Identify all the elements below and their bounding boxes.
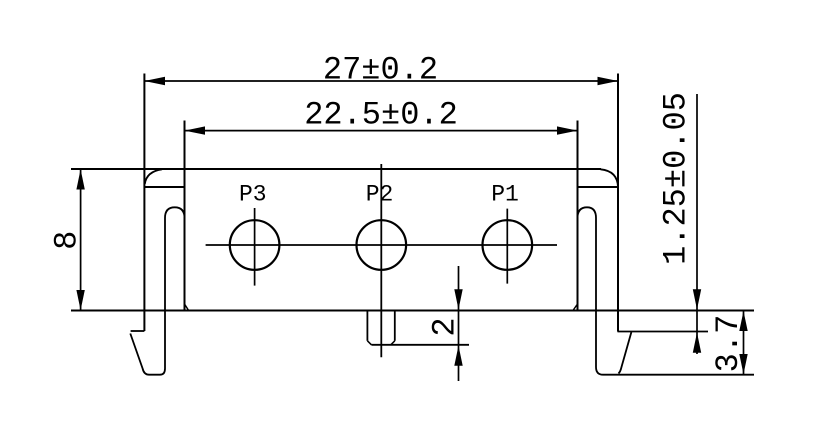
- wire center tab right side (x=394.8): [394, 311, 396, 341]
- arrow 27 dim right: [598, 77, 619, 85]
- arrow 8 dim top: [76, 169, 84, 189]
- wire right foot top line + extension line for 1.25 dim (y=331.5): [618, 331, 709, 333]
- wire right foot bent-tip diagonal: [619, 332, 632, 374]
- wire right slot bottom chamfer tick: [573, 304, 577, 310]
- wire right leg bottom edge + extension line for 3.7 dim (y=374.7): [603, 374, 754, 376]
- wire top edge of shell body (y=169): [71, 168, 601, 170]
- wire center tab left side (x=367.4): [366, 311, 368, 341]
- wire top-right corner fillet: [601, 169, 619, 187]
- wire body left edge + extension line for 22.5 dim (x=184.5): [184, 121, 186, 311]
- hole P1 circle: [483, 220, 533, 270]
- svg-text:P2: P2: [366, 182, 394, 208]
- wire center tab bottom left chamfer: [367, 341, 371, 345]
- svg-text:22.5±0.2: 22.5±0.2: [304, 97, 458, 134]
- wire right flange step line (y=187): [578, 186, 619, 188]
- arrow 27 dim left: [144, 77, 165, 85]
- svg-text:8: 8: [49, 231, 86, 250]
- wire dimension line 2 (x=458.5): [458, 266, 460, 381]
- wire dimension line 22.5±0.2 (y=130.6): [185, 130, 578, 132]
- arrow 22.5 dim left: [185, 126, 206, 134]
- arrow 2 dim upper (points down to y=310.5): [454, 289, 462, 309]
- arrow 1.25 dim upper (points down to y=310.5): [693, 289, 701, 309]
- svg-text:P1: P1: [491, 182, 519, 208]
- wire outer right edge + extension line for 27 dim (x=618): [617, 74, 619, 332]
- hole P2 circle: [357, 220, 407, 270]
- svg-text:27±0.2: 27±0.2: [323, 52, 438, 89]
- arrow 3.7 dim top (points up to y=310.5): [739, 311, 747, 331]
- wire dimension line 3.7 (x=743.5): [743, 311, 745, 375]
- wire left slot bottom chamfer tick: [185, 304, 189, 310]
- wire outer left edge + extension line for 27 dim (x=144.4): [143, 74, 145, 332]
- wire left slot left side continuing as left leg inner edge (x=165): [130, 218, 165, 375]
- svg-text:1.25±0.05: 1.25±0.05: [658, 92, 695, 265]
- svg-text:P3: P3: [239, 182, 267, 208]
- wire right slot right side continuing as right leg inner edge (x=596): [596, 218, 603, 375]
- svg-text:3.7: 3.7: [710, 315, 747, 373]
- wire dimension line 8 (x=80.6): [80, 169, 82, 311]
- arrow 22.5 dim right: [557, 126, 578, 134]
- wire center tab bottom right chamfer: [391, 341, 395, 345]
- wire left flange step line (y=187): [144, 186, 184, 188]
- wire left foot step (y=331): [131, 330, 145, 332]
- node P3 vertical centerline: [254, 208, 256, 286]
- node P2 vertical centerline (long): [380, 164, 382, 357]
- wire dimension/leader line 1.25±0.05 (x=697): [696, 94, 698, 354]
- arrow 3.7 dim bottom (points down to y=374.7): [739, 354, 747, 374]
- wire right slot rounded top: [578, 207, 597, 218]
- arrow 8 dim bottom: [76, 290, 84, 310]
- wire dimension line 27±0.2 (y=81): [144, 80, 618, 82]
- wire body right edge + extension line for 22.5 dim (x=577.5): [577, 121, 579, 311]
- svg-text:2: 2: [427, 317, 464, 336]
- node P1 vertical centerline: [506, 209, 508, 284]
- wire top-left corner fillet: [145, 169, 162, 184]
- wire bottom edge of shell body, full width with dim extensions (y=310.5): [71, 310, 754, 312]
- wire center tab bottom + extension line for 2 dim (y=344.8): [371, 344, 469, 346]
- wire left slot rounded top: [165, 207, 185, 218]
- arrow 2 dim lower (points up to y=344.8): [454, 346, 462, 366]
- arrow 1.25 dim lower (points up to y=331.5): [693, 333, 701, 353]
- hole P3 circle: [230, 220, 280, 270]
- wire extension line top for 8 dim (y=169 left of body) is part of top edge: [71, 168, 144, 170]
- node horizontal centerline through holes (y=245): [206, 244, 557, 246]
